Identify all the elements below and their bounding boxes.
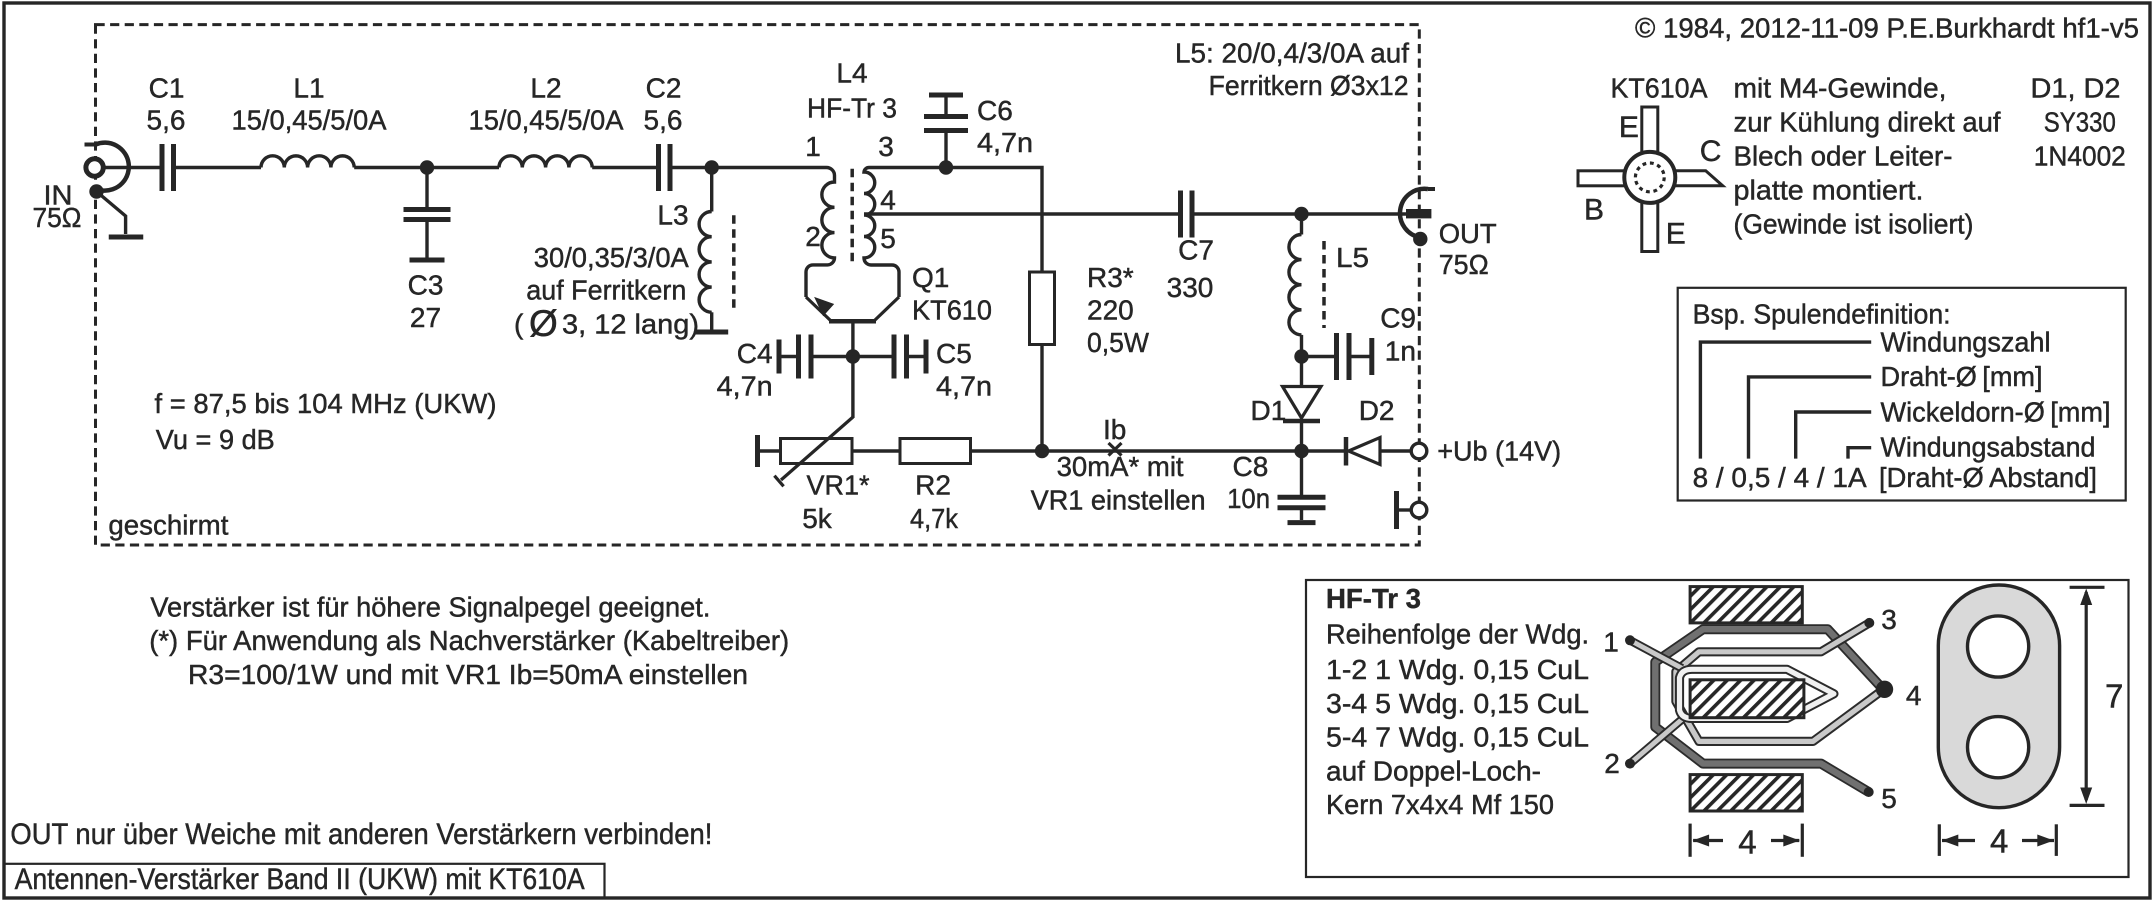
svg-text:L5: L5 bbox=[1336, 242, 1369, 273]
svg-text:C5: C5 bbox=[936, 338, 972, 369]
svg-text:4,7k: 4,7k bbox=[910, 503, 959, 534]
wire C1 to L1 bbox=[174, 166, 262, 169]
core hatched block bottom bbox=[1690, 775, 1802, 811]
resistor R2 bbox=[900, 439, 971, 464]
svg-text:geschirmt: geschirmt bbox=[108, 510, 228, 541]
svg-text:Blech oder Leiter-: Blech oder Leiter- bbox=[1734, 141, 1953, 172]
lead dot 4 bbox=[1876, 681, 1893, 698]
wire D1 to node F bbox=[1300, 421, 1303, 451]
svg-text:C7: C7 bbox=[1178, 235, 1214, 266]
svg-text:75Ω: 75Ω bbox=[33, 202, 82, 233]
svg-text:1N4002: 1N4002 bbox=[2034, 141, 2126, 172]
diode D1 bbox=[1283, 387, 1322, 419]
svg-text:1: 1 bbox=[1603, 626, 1619, 657]
callout line Wickeldorn bbox=[1796, 412, 1872, 459]
wire node D to L5 bbox=[1300, 214, 1303, 235]
capacitor C5 bbox=[892, 335, 897, 379]
capacitor C2 bbox=[656, 144, 661, 191]
wire VR1 left stub bbox=[758, 449, 781, 452]
wire IN shield to ground bbox=[97, 192, 126, 235]
wire R3 to node C bbox=[1040, 345, 1043, 452]
dimension 7 (core height) bbox=[2070, 586, 2105, 589]
svg-text:(Gewinde ist isoliert): (Gewinde ist isoliert) bbox=[1734, 209, 1974, 240]
wire C4 stub bbox=[779, 355, 799, 358]
svg-text:[Draht-Ø Abstand]: [Draht-Ø Abstand] bbox=[1879, 462, 2097, 493]
svg-text:Reihenfolge der Wdg.: Reihenfolge der Wdg. bbox=[1326, 619, 1589, 650]
svg-text:Vu = 9 dB: Vu = 9 dB bbox=[156, 424, 275, 455]
box Spulendefinition bbox=[1678, 288, 2126, 501]
svg-text:4,7n: 4,7n bbox=[717, 371, 773, 402]
svg-text:Verstärker ist für höhere Sign: Verstärker ist für höhere Signalpegel ge… bbox=[150, 591, 710, 622]
svg-text:Bsp. Spulendefinition:: Bsp. Spulendefinition: bbox=[1693, 299, 1951, 330]
lead 2 bbox=[1630, 719, 1682, 763]
capacitor C9 bbox=[1334, 333, 1339, 380]
svg-text:L3: L3 bbox=[657, 200, 688, 231]
svg-text:E: E bbox=[1666, 218, 1686, 251]
winding 3-4 (light gray) with lead 3 bbox=[1676, 623, 1882, 742]
svg-text:4,7n: 4,7n bbox=[936, 371, 992, 402]
wire node F to D2 bbox=[1302, 449, 1347, 452]
node D bbox=[1294, 207, 1308, 221]
core hatched block top bbox=[1690, 587, 1802, 623]
svg-text:3-4 5 Wdg. 0,15 CuL: 3-4 5 Wdg. 0,15 CuL bbox=[1326, 688, 1589, 719]
svg-text:E: E bbox=[1619, 111, 1639, 144]
svg-text:7: 7 bbox=[2105, 678, 2123, 715]
svg-text:Antennen-Verstärker Band II (U: Antennen-Verstärker Band II (UKW) mit KT… bbox=[15, 863, 585, 896]
svg-text:1: 1 bbox=[805, 131, 821, 162]
box HF-Tr 3 bbox=[1306, 580, 2129, 877]
svg-text:330: 330 bbox=[1167, 272, 1214, 303]
connector IN (coax jack) bbox=[85, 143, 129, 191]
wire L5 to node E bbox=[1300, 335, 1303, 357]
terminal bar C5 bbox=[924, 340, 929, 374]
transformer L4 primary winding (pins 1-2) bbox=[806, 168, 835, 298]
inductor L3 bbox=[699, 212, 712, 313]
svg-text:HF-Tr 3: HF-Tr 3 bbox=[807, 92, 897, 123]
svg-text:5: 5 bbox=[880, 223, 896, 254]
svg-text:5,6: 5,6 bbox=[147, 105, 186, 136]
svg-text:3, 12 lang): 3, 12 lang) bbox=[562, 308, 699, 339]
svg-text:Windungszahl: Windungszahl bbox=[1881, 326, 2051, 357]
capacitor C4 bbox=[796, 335, 801, 379]
wire base to C4 bbox=[811, 355, 853, 358]
core line L4 (dashed) bbox=[850, 169, 854, 262]
callout line Draht bbox=[1749, 377, 1872, 459]
node E bbox=[1294, 349, 1308, 363]
svg-text:R2: R2 bbox=[915, 470, 951, 501]
emitter arrow Q1 bbox=[817, 299, 833, 314]
wire pin3 to C6 bbox=[944, 133, 947, 168]
capacitor C1 bbox=[160, 144, 165, 191]
current break Ib bbox=[1109, 443, 1122, 456]
callout line Windungszahl bbox=[1700, 342, 1871, 459]
svg-text:4,7n: 4,7n bbox=[977, 127, 1033, 158]
wire node A to C3 bbox=[425, 168, 428, 208]
winding 5-4 (dark gray) with lead 5 bbox=[1655, 629, 1881, 792]
svg-text:3: 3 bbox=[1881, 604, 1897, 635]
wire C5 stub bbox=[907, 355, 927, 358]
svg-text:D1: D1 bbox=[1251, 395, 1287, 426]
transistor Q1 base bar bbox=[829, 319, 876, 324]
svg-text:Draht-Ø [mm]: Draht-Ø [mm] bbox=[1881, 361, 2043, 392]
ground (C6) bbox=[929, 93, 963, 98]
svg-text:1n: 1n bbox=[1385, 335, 1416, 366]
svg-text:L5: 20/0,4/3/0A auf: L5: 20/0,4/3/0A auf bbox=[1175, 37, 1409, 68]
svg-text:R3*: R3* bbox=[1087, 262, 1134, 293]
shield box (geschirmt) dashed border bbox=[96, 25, 1420, 545]
svg-text:Windungsabstand: Windungsabstand bbox=[1881, 432, 2096, 463]
svg-text:Q1: Q1 bbox=[912, 262, 949, 293]
inductor L5 bbox=[1289, 235, 1302, 335]
potentiometer VR1 wiper arrow bbox=[781, 417, 853, 480]
wire D2 to +Ub bbox=[1380, 449, 1412, 452]
terminal bar VR1 bbox=[755, 435, 760, 467]
ground (C8) bbox=[1288, 520, 1316, 525]
svg-text:auf Doppel-Loch-: auf Doppel-Loch- bbox=[1326, 755, 1541, 786]
capacitor C6 bbox=[924, 114, 968, 119]
wire Q1 base down bbox=[851, 323, 854, 357]
transistor Q1 emitter bbox=[806, 297, 831, 321]
svg-text:3: 3 bbox=[878, 131, 894, 162]
node IN shield bbox=[89, 184, 103, 198]
svg-text:Ib: Ib bbox=[1103, 414, 1126, 445]
core hatched block center bbox=[1690, 680, 1804, 718]
svg-text:27: 27 bbox=[410, 302, 441, 333]
svg-text:4: 4 bbox=[1906, 680, 1922, 711]
connector OUT (coax plug) bbox=[1400, 189, 1435, 238]
svg-text:B: B bbox=[1584, 194, 1604, 227]
svg-text:Wickeldorn-Ø [mm]: Wickeldorn-Ø [mm] bbox=[1881, 396, 2111, 427]
wire node B to L4 bbox=[712, 166, 827, 169]
svg-text:5-4 7 Wdg. 0,15 CuL: 5-4 7 Wdg. 0,15 CuL bbox=[1326, 722, 1589, 753]
lead dot 3 bbox=[1864, 618, 1874, 628]
svg-text:0,5W: 0,5W bbox=[1087, 327, 1150, 358]
svg-text:2: 2 bbox=[1604, 748, 1620, 779]
svg-text:30mA* mit: 30mA* mit bbox=[1057, 451, 1184, 482]
wire node F to C8 bbox=[1300, 451, 1303, 495]
node C bbox=[1035, 444, 1049, 458]
svg-text:10n: 10n bbox=[1227, 483, 1270, 514]
svg-text:SY330: SY330 bbox=[2044, 106, 2116, 137]
svg-text:220: 220 bbox=[1087, 294, 1134, 325]
wire node A to L2 bbox=[427, 166, 499, 169]
wire node E to C9 bbox=[1302, 355, 1337, 358]
svg-text:OUT: OUT bbox=[1439, 218, 1497, 249]
terminal bar ground return bbox=[1394, 491, 1399, 529]
svg-text:C4: C4 bbox=[737, 338, 773, 369]
svg-text:mit M4-Gewinde,: mit M4-Gewinde, bbox=[1734, 72, 1947, 103]
wire R2 to node C bbox=[971, 449, 1043, 452]
wire C9 stub bbox=[1349, 355, 1372, 358]
svg-text:C8: C8 bbox=[1233, 451, 1269, 482]
wire pin3-node to R3 bbox=[946, 168, 1042, 273]
terminal +Ub bbox=[1411, 443, 1427, 459]
wire C3 to ground bbox=[425, 222, 428, 258]
lead dot 5 bbox=[1864, 787, 1874, 797]
wire IN to C1 bbox=[103, 166, 162, 169]
svg-text:Ø: Ø bbox=[529, 303, 558, 344]
wire node E to D1 bbox=[1300, 357, 1303, 387]
wire base to C5 bbox=[853, 355, 894, 358]
capacitor C8 bbox=[1278, 495, 1326, 500]
node F bbox=[1294, 444, 1308, 458]
wire node D to OUT bbox=[1302, 212, 1409, 215]
svg-text:VR1*: VR1* bbox=[807, 470, 870, 501]
winding 1-2 (white band) bbox=[1680, 669, 1834, 718]
lead dot 2 bbox=[1625, 759, 1635, 769]
wire C7 to node D bbox=[1192, 212, 1302, 215]
lead dot 1 bbox=[1625, 635, 1635, 645]
double-hole core front view bbox=[1938, 585, 2059, 808]
wire L1 to node A bbox=[354, 166, 427, 169]
svg-text:(*) Für Anwendung als Nachvers: (*) Für Anwendung als Nachverstärker (Ka… bbox=[149, 625, 789, 656]
svg-text:Kern 7x4x4 Mf 150: Kern 7x4x4 Mf 150 bbox=[1326, 789, 1554, 820]
lead 1 bbox=[1630, 640, 1682, 668]
node B bbox=[705, 160, 719, 174]
svg-text:D2: D2 bbox=[1359, 395, 1395, 426]
transformer L4 secondary winding (pins 3-4-5) bbox=[864, 167, 946, 297]
node base bbox=[846, 349, 860, 363]
svg-text:1-2 1 Wdg. 0,15 CuL: 1-2 1 Wdg. 0,15 CuL bbox=[1326, 654, 1589, 685]
node A bbox=[420, 160, 434, 174]
svg-text:5: 5 bbox=[1881, 783, 1897, 814]
inductor L2 bbox=[499, 156, 592, 168]
svg-text:C3: C3 bbox=[408, 269, 444, 300]
svg-text:R3=100/1W und mit VR1 Ib=50m: R3=100/1W und mit VR1 Ib=50mA einstellen bbox=[188, 659, 748, 690]
node OUT shield bbox=[1413, 232, 1427, 246]
svg-text:Ferritkern Ø3x12: Ferritkern Ø3x12 bbox=[1209, 70, 1409, 101]
terminal bar C9 bbox=[1369, 338, 1374, 375]
svg-text:(: ( bbox=[514, 308, 524, 339]
wire L2 to C2 bbox=[592, 166, 658, 169]
ground (C3) bbox=[410, 258, 445, 263]
svg-text:C1: C1 bbox=[149, 72, 185, 103]
svg-text:5,6: 5,6 bbox=[644, 105, 683, 136]
svg-text:KT610: KT610 bbox=[912, 294, 992, 325]
svg-text:C: C bbox=[1700, 135, 1722, 168]
ground (IN) bbox=[109, 235, 144, 240]
svg-text:15/0,45/5/0A: 15/0,45/5/0A bbox=[232, 105, 387, 136]
svg-text:+Ub (14V): +Ub (14V) bbox=[1437, 435, 1561, 466]
svg-text:8 / 0,5 / 4 / 1A: 8 / 0,5 / 4 / 1A bbox=[1693, 462, 1867, 493]
svg-text:4: 4 bbox=[1990, 823, 2008, 860]
svg-text:4: 4 bbox=[1738, 824, 1756, 861]
diode D2 bbox=[1344, 437, 1349, 466]
svg-text:30/0,35/3/0A: 30/0,35/3/0A bbox=[534, 242, 689, 273]
dimension 4 (core width) bbox=[1688, 824, 1691, 857]
svg-text:2: 2 bbox=[805, 221, 821, 252]
svg-text:OUT nur über Weiche mit andere: OUT nur über Weiche mit anderen Verstärk… bbox=[10, 818, 712, 851]
wire C8 to ground bbox=[1300, 510, 1303, 520]
svg-text:HF-Tr 3: HF-Tr 3 bbox=[1326, 583, 1421, 614]
callout line Windungsabstand bbox=[1848, 448, 1871, 459]
svg-text:f = 87,5 bis 104 MHz (UKW): f = 87,5 bis 104 MHz (UKW) bbox=[155, 388, 497, 419]
svg-text:C6: C6 bbox=[977, 95, 1013, 126]
capacitor C3 bbox=[404, 207, 451, 212]
svg-text:5k: 5k bbox=[802, 503, 833, 534]
transistor Q1 collector bbox=[875, 297, 900, 321]
potentiometer VR1 body bbox=[781, 439, 853, 464]
svg-text:L4: L4 bbox=[836, 57, 867, 88]
svg-text:L1: L1 bbox=[293, 72, 324, 103]
svg-text:zur Kühlung direkt auf: zur Kühlung direkt auf bbox=[1734, 106, 2001, 137]
node pin3 bbox=[939, 160, 953, 174]
wire node B to L3 bbox=[710, 168, 713, 212]
KT610A package drawing bbox=[1578, 107, 1723, 252]
title box bbox=[4, 864, 605, 899]
svg-text:VR1 einstellen: VR1 einstellen bbox=[1031, 485, 1206, 516]
svg-text:L2: L2 bbox=[530, 72, 561, 103]
wire C6 to ground bbox=[944, 97, 947, 114]
terminal ground return bbox=[1411, 502, 1427, 518]
svg-text:75Ω: 75Ω bbox=[1439, 249, 1489, 280]
resistor R3 bbox=[1030, 272, 1055, 345]
svg-text:© 1984, 2012-11-09 P.E.Burkhar: © 1984, 2012-11-09 P.E.Burkhardt hf1-v5 bbox=[1635, 13, 2139, 44]
label L3 dimensions bbox=[514, 303, 699, 344]
svg-text:4: 4 bbox=[880, 185, 896, 216]
wire C2 to node B bbox=[670, 166, 712, 169]
wire VR1 to R2 bbox=[852, 449, 900, 452]
svg-text:C9: C9 bbox=[1380, 303, 1416, 334]
svg-text:C2: C2 bbox=[646, 72, 682, 103]
wire ground-return stub bbox=[1397, 508, 1411, 511]
svg-text:auf Ferritkern: auf Ferritkern bbox=[526, 274, 686, 305]
core line L5 (ferrite) bbox=[1322, 241, 1326, 328]
ground (L3) bbox=[695, 330, 728, 335]
svg-text:platte montiert.: platte montiert. bbox=[1734, 175, 1924, 206]
svg-text:15/0,45/5/0A: 15/0,45/5/0A bbox=[469, 105, 624, 136]
inductor L1 bbox=[261, 156, 354, 168]
svg-text:KT610A: KT610A bbox=[1611, 72, 1708, 103]
wire pin4 to C7 bbox=[864, 212, 1181, 215]
core line L3 (ferrite) bbox=[732, 215, 736, 308]
wire base wire to wiper bbox=[851, 357, 854, 419]
terminal bar C4 bbox=[777, 340, 782, 374]
dimension 4 (stadium width) bbox=[1938, 824, 1941, 856]
capacitor C7 bbox=[1178, 191, 1183, 238]
svg-text:D1, D2: D1, D2 bbox=[2031, 72, 2121, 103]
wire node C to node F bbox=[1042, 449, 1302, 452]
wire L3 to ground bbox=[710, 312, 713, 329]
